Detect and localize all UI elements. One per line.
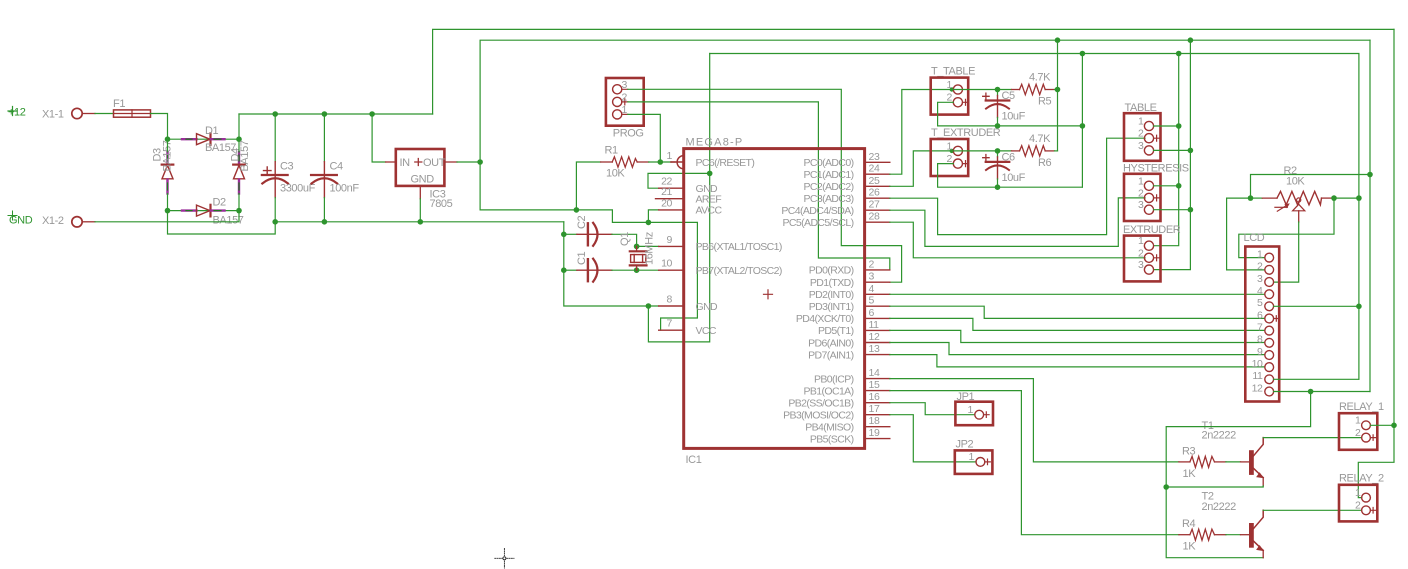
node +12 at C3: [272, 111, 278, 117]
svg-text:1K: 1K: [1183, 468, 1197, 480]
wire RELAY_1 pin1 to +12 vertical: [1370, 424, 1394, 426]
svg-text:1: 1: [1257, 248, 1263, 260]
svg-text:25: 25: [869, 175, 880, 187]
node T_EXTRUDER pin1: [950, 149, 954, 153]
svg-text:2: 2: [1257, 261, 1263, 273]
wire crystal bottom to pin10: [637, 269, 659, 271]
svg-text:10K: 10K: [606, 168, 625, 180]
svg-text:PB7(XTAL2/TOSC2): PB7(XTAL2/TOSC2): [696, 265, 782, 277]
node VCC at AVCC tee: [646, 220, 652, 226]
svg-text:17: 17: [869, 403, 880, 415]
wire C2 to crystal top: [612, 234, 637, 246]
svg-text:PB4(MISO): PB4(MISO): [805, 422, 853, 434]
node GND at IC3: [418, 219, 424, 225]
svg-text:1: 1: [1138, 116, 1144, 128]
svg-text:BA157: BA157: [239, 140, 251, 171]
node GND vertical at R2: [1356, 195, 1362, 201]
node pin1 / PROG1: [658, 159, 664, 165]
svg-text:C5: C5: [1002, 90, 1016, 102]
svg-text:7805: 7805: [430, 198, 453, 210]
svg-text:OUT: OUT: [423, 157, 446, 169]
svg-text:8: 8: [1257, 334, 1263, 346]
wire bridge right to +12 rail: [238, 114, 240, 139]
svg-text:PD7(AIN1): PD7(AIN1): [808, 349, 853, 361]
node +12 at IC3 drop: [369, 111, 375, 117]
svg-text:PD1(TXD): PD1(TXD): [810, 277, 854, 289]
net label GND (input): [8, 211, 33, 227]
node R2 right: [1331, 195, 1337, 201]
svg-text:AVCC: AVCC: [696, 205, 723, 217]
wire TABLE pin3 to VCC riser2: [1154, 149, 1191, 151]
svg-text:LCD: LCD: [1244, 232, 1265, 244]
wire bridge bottom row: [168, 210, 240, 212]
IC1 left pin stubs: [656, 162, 684, 330]
wire R2 left up to VCC vertical: [1251, 175, 1371, 199]
svg-text:16: 16: [869, 391, 880, 403]
svg-text:10K: 10K: [1286, 176, 1305, 188]
capacitor C1: [564, 251, 612, 281]
svg-text:9: 9: [1257, 346, 1263, 358]
node wire2 at VCC riser: [1055, 37, 1061, 43]
wire R5 right to VCC riser: [1055, 89, 1058, 91]
wire PB0 pin14 to R3: [890, 379, 1179, 462]
wire X1-1 to F1: [95, 113, 113, 115]
svg-text:RELAY_1: RELAY_1: [1339, 401, 1384, 413]
node VCC at R1 riser: [574, 207, 580, 213]
wire IC3 OUT to VCC node: [457, 161, 480, 163]
wire T_EXTRUDER pin2 to C6 bottom: [938, 164, 998, 188]
node R2 left: [1248, 195, 1254, 201]
svg-text:1: 1: [1138, 175, 1144, 187]
svg-text:IN: IN: [400, 157, 411, 169]
capacitor C4 100nF: [311, 114, 359, 222]
svg-text:13: 13: [869, 343, 880, 355]
svg-text:12: 12: [1252, 382, 1263, 394]
node GND at pin22 tee: [707, 171, 713, 177]
svg-text:3: 3: [1138, 259, 1144, 271]
svg-text:4: 4: [1257, 285, 1263, 297]
svg-text:R3: R3: [1182, 446, 1196, 458]
wire GND rail: [275, 221, 564, 223]
svg-text:PD4(XCK/T0): PD4(XCK/T0): [796, 313, 854, 325]
svg-text:24: 24: [869, 163, 880, 175]
wire PC1 pin24 to T_TABLE pin1: [890, 90, 953, 175]
wire T1 emitter down-left: [1166, 486, 1263, 487]
wire PB1 pin15 to R4: [890, 391, 1179, 535]
node GND riser at C5 line: [1080, 123, 1086, 129]
IC1 right pin names: [781, 157, 853, 445]
origin crosshair: [495, 549, 514, 569]
pin1 reset bubble: [671, 156, 684, 169]
node T_TABLE pin1: [950, 87, 954, 91]
svg-text:1: 1: [947, 140, 953, 152]
wire PD3 pin5 to LCD pin6: [890, 306, 1265, 318]
svg-text:2: 2: [1355, 500, 1361, 512]
potentiometer R2 10K: [1251, 165, 1333, 222]
svg-text:2: 2: [1355, 427, 1361, 439]
wire LCD pin5 to GND vertical: [1274, 305, 1358, 307]
svg-text:19: 19: [869, 427, 880, 439]
connector RELAY_1: [1339, 401, 1384, 450]
svg-text:PD5(T1): PD5(T1): [818, 325, 854, 337]
voltage regulator IC3 7805: [386, 149, 457, 210]
svg-text:11: 11: [1252, 370, 1263, 382]
node C5 bottom: [995, 123, 1001, 129]
svg-text:R6: R6: [1038, 157, 1052, 169]
svg-text:15: 15: [869, 379, 880, 391]
svg-text:100nF: 100nF: [330, 183, 360, 195]
svg-text:C3: C3: [280, 161, 294, 173]
svg-text:2: 2: [1138, 187, 1144, 199]
svg-text:1: 1: [667, 150, 673, 162]
svg-text:C1: C1: [576, 251, 588, 265]
svg-text:12: 12: [869, 331, 880, 343]
svg-text:3: 3: [1138, 199, 1144, 211]
node bridge top-right: [236, 136, 242, 142]
svg-text:21: 21: [661, 186, 672, 198]
connector RELAY_2: [1339, 473, 1384, 522]
svg-text:8: 8: [667, 294, 673, 306]
svg-text:16MHz: 16MHz: [644, 232, 656, 265]
wire R2 wiper to LCD pin3: [1274, 222, 1299, 282]
node LCD pin12 emitter branch: [1308, 389, 1314, 395]
node HYSTERESIS pin3: [1188, 207, 1194, 213]
svg-text:4: 4: [869, 283, 875, 295]
wire +12 riser to top rail (wire1): [433, 29, 1394, 114]
svg-text:IC1: IC1: [686, 454, 702, 466]
svg-text:6: 6: [869, 307, 875, 319]
connector T_TABLE: [931, 66, 975, 115]
wire PD6 pin12 to LCD pin9: [890, 343, 1265, 355]
node C6 top: [995, 148, 1001, 154]
wire bridge top row: [168, 138, 240, 140]
svg-text:3: 3: [1138, 140, 1144, 152]
connector LCD: [1244, 232, 1280, 402]
diode D2 BA157: [182, 197, 244, 227]
svg-text:5: 5: [1257, 297, 1263, 309]
svg-text:2: 2: [869, 258, 875, 270]
wire VCC riser wire2 to R6: [1057, 40, 1059, 151]
svg-text:JP2: JP2: [956, 439, 974, 451]
svg-text:7: 7: [1257, 321, 1263, 333]
svg-text:+12: +12: [8, 107, 26, 119]
node crystal bottom / pin10: [634, 267, 640, 273]
resistor R1 10K: [576, 145, 648, 210]
svg-text:5: 5: [869, 295, 875, 307]
capacitor C6 10uF: [983, 151, 1026, 187]
IC1 right pin numbers: [869, 151, 880, 439]
wire X1-2 to bridge bottom-right: [95, 211, 239, 222]
node wire2 at VCC riser2: [1188, 37, 1194, 43]
svg-text:PC2(ADC2): PC2(ADC2): [803, 181, 853, 193]
connector EXTRUDER: [1123, 224, 1181, 281]
svg-text:1: 1: [969, 451, 975, 463]
resistor R5 4.7K: [953, 72, 1055, 108]
svg-text:26: 26: [869, 187, 880, 199]
svg-text:18: 18: [869, 415, 880, 427]
wire PD2 pin4 to LCD pin4: [890, 293, 1265, 295]
connector PROG: [606, 78, 644, 140]
svg-text:2n2222: 2n2222: [1202, 501, 1237, 513]
node TABLE pin1: [1176, 123, 1182, 129]
wire PD4 pin6 to LCD pin7: [890, 318, 1265, 330]
node emitter rail: [1163, 484, 1169, 490]
diode D4 BA157: [230, 140, 252, 193]
svg-text:VCC: VCC: [696, 325, 717, 337]
svg-text:28: 28: [869, 211, 880, 223]
wire PD5 pin11 to LCD pin8: [890, 330, 1265, 342]
svg-text:PC0(ADC0): PC0(ADC0): [803, 157, 853, 169]
svg-text:GND: GND: [411, 173, 435, 185]
svg-text:20: 20: [661, 197, 672, 209]
node wire3 at GND riser: [1080, 51, 1086, 57]
svg-text:F1: F1: [113, 98, 125, 110]
resistor R6 4.7K: [953, 133, 1055, 169]
svg-text:10: 10: [1252, 358, 1263, 370]
svg-text:1: 1: [1355, 415, 1361, 427]
svg-text:C6: C6: [1002, 151, 1016, 163]
node LCD pin5 GND: [1356, 304, 1362, 310]
svg-text:1K: 1K: [1183, 541, 1197, 553]
svg-text:23: 23: [869, 151, 880, 163]
svg-text:2: 2: [1138, 128, 1144, 140]
node C5 top: [995, 87, 1001, 93]
svg-text:2: 2: [622, 92, 628, 104]
svg-text:14: 14: [869, 367, 880, 379]
svg-text:X1-2: X1-2: [42, 215, 64, 227]
svg-text:X1-1: X1-1: [42, 109, 64, 121]
svg-text:1: 1: [622, 104, 628, 116]
capacitor C2: [564, 215, 612, 245]
wire VCC riser to wire2: [480, 40, 1370, 162]
wire T1 collector to RELAY_1 pin2: [1263, 437, 1361, 439]
wire R2 right to GND vertical: [1333, 197, 1359, 199]
wire T2 collector to RELAY_2 pin2: [1263, 509, 1361, 511]
wire PC2 pin25 to T_EXTRUDER pin1: [890, 151, 953, 186]
svg-text:PD0(RXD): PD0(RXD): [809, 265, 854, 277]
crystal Q1 16MHz: [619, 232, 656, 270]
wire VCC riser2 (wire2 to EXTRUDER pin3): [1154, 40, 1191, 269]
svg-text:PC6(/RESET): PC6(/RESET): [696, 157, 755, 169]
svg-text:2: 2: [1138, 247, 1144, 259]
wire R3 to T1 base: [1226, 461, 1241, 463]
node bridge top-left: [165, 136, 171, 142]
node crystal top / pin9: [634, 244, 640, 250]
capacitor C5 10uF: [983, 90, 1026, 126]
wire PROG pin2 to PD0: [628, 102, 890, 270]
IC1 origin cross: [764, 290, 773, 299]
svg-text:3: 3: [1257, 273, 1263, 285]
wire +12 vertical down to RELAY_2 pin1: [1358, 29, 1394, 497]
svg-text:PC4(ADC4/SDA): PC4(ADC4/SDA): [781, 205, 853, 217]
wire R2 right branch to LCD pin1: [1239, 198, 1334, 258]
svg-text:PB5(SCK): PB5(SCK): [810, 433, 854, 445]
svg-text:PB6(XTAL1/TOSC1): PB6(XTAL1/TOSC1): [696, 241, 782, 253]
wire R4 to T2 base: [1226, 534, 1241, 536]
wire crystal top to pin9: [637, 245, 659, 247]
node GND rail at C3: [272, 219, 278, 225]
wire GND riser2 (wire3 to EXTRUDER pin1): [1154, 54, 1179, 246]
node TABLE pin3: [1188, 148, 1194, 154]
wire emitter rail (LCD pin12 branch down around): [1166, 392, 1310, 558]
wire TABLE pin1 to GND riser2: [1154, 125, 1179, 127]
svg-text:PB3(MOSI/OC2): PB3(MOSI/OC2): [783, 410, 853, 422]
connector pad X1-1: [42, 108, 95, 120]
svg-text:PB1(OC1A): PB1(OC1A): [803, 385, 853, 397]
svg-text:PC3(ADC3): PC3(ADC3): [803, 193, 853, 205]
connector JP2: [955, 439, 993, 474]
node GND at C2: [561, 232, 567, 238]
svg-text:10: 10: [661, 258, 672, 270]
wire GND rail corner down to C2/C1: [564, 222, 659, 306]
wire C1 to crystal bottom: [612, 269, 637, 271]
node VCC at IC3 OUT: [477, 159, 483, 165]
svg-text:PD3(INT1): PD3(INT1): [809, 301, 854, 313]
wire AVCC branch up to pin20: [648, 210, 658, 223]
node GND at pin8 tee: [646, 303, 652, 309]
svg-text:1: 1: [1138, 235, 1144, 247]
wire bridge left column: [167, 139, 169, 210]
diode D3 BA157: [152, 140, 174, 193]
wire T_TABLE pin2 to C5 bottom: [938, 102, 998, 126]
svg-text:6: 6: [1257, 309, 1263, 321]
wire R1 to pin1 node: [649, 161, 671, 163]
svg-text:C4: C4: [330, 161, 344, 173]
wire PD7 pin13 to LCD pin10: [890, 355, 1265, 367]
svg-text:PD6(AIN0): PD6(AIN0): [808, 337, 853, 349]
svg-text:PD2(INT0): PD2(INT0): [809, 289, 854, 301]
node C6 bottom: [995, 184, 1001, 190]
svg-text:C2: C2: [576, 215, 588, 229]
node R2 top at VCC vertical: [1367, 172, 1373, 178]
svg-text:D2: D2: [213, 197, 227, 209]
node HYSTERESIS pin1: [1176, 183, 1182, 189]
node R5 right: [1055, 87, 1061, 93]
wire GND riser (wire3 to C6 line): [1081, 54, 1083, 188]
connector JP1: [955, 391, 993, 425]
wire GND tee down and to wire3 riser: [648, 54, 709, 342]
connector TABLE: [1124, 102, 1161, 161]
svg-text:R4: R4: [1182, 518, 1196, 530]
svg-text:PB2(SS/OC1B): PB2(SS/OC1B): [788, 398, 853, 410]
wire LCD pin12 to VCC vertical end: [1274, 391, 1370, 393]
wire VCC branch down to AVCC rail: [480, 162, 697, 330]
wire PROG pin3 to PD1: [628, 89, 902, 282]
transistor T2 2n2222: [1202, 491, 1264, 558]
svg-text:10uF: 10uF: [1002, 111, 1026, 123]
svg-text:1: 1: [968, 404, 974, 416]
node GND at C1: [561, 267, 567, 273]
transistor T1 2n2222: [1202, 420, 1264, 486]
wire F1 to bridge top-left: [151, 114, 168, 140]
node bridge bottom-left: [165, 208, 171, 214]
svg-text:T_EXTRUDER: T_EXTRUDER: [931, 127, 1001, 139]
svg-text:3300uF: 3300uF: [280, 183, 316, 195]
svg-text:7: 7: [667, 318, 673, 330]
svg-text:GND: GND: [696, 301, 719, 313]
node bridge bottom-right: [236, 208, 242, 214]
wire bridge right column: [238, 139, 240, 210]
svg-text:MEGA8-P: MEGA8-P: [686, 137, 744, 149]
wire IC3 GND to rail: [419, 199, 421, 222]
wire C6 bottom to GND riser: [998, 186, 1083, 188]
svg-text:3: 3: [622, 79, 628, 91]
wire PC5 pin28 to EXTRUDER pin2: [890, 222, 1145, 258]
wire bridge bottom-left detour to GND rail: [168, 211, 276, 234]
svg-text:PB0(ICP): PB0(ICP): [814, 373, 854, 385]
svg-text:1: 1: [1355, 487, 1361, 499]
svg-text:4.7K: 4.7K: [1029, 133, 1051, 145]
wire PC3 pin26 to TABLE pin2: [890, 138, 1145, 234]
resistor R3 1K: [1179, 446, 1226, 481]
svg-text:PROG: PROG: [613, 128, 644, 140]
wire PB2 pin16 to JP1: [890, 403, 975, 415]
wire GND tee to pin22: [648, 173, 710, 188]
svg-text:10uF: 10uF: [1002, 172, 1026, 184]
resistor R4 1K: [1179, 518, 1226, 553]
wire HYSTERESIS pin1 to GND riser2: [1154, 185, 1179, 187]
wire R2 left to LCD pin2: [1227, 198, 1265, 270]
svg-text:PC5(ADC5/SCL): PC5(ADC5/SCL): [783, 217, 854, 229]
svg-text:R5: R5: [1038, 96, 1052, 108]
wire PC4 pin27 to HYSTERESIS pin2: [890, 198, 1145, 247]
svg-text:4.7K: 4.7K: [1029, 72, 1051, 84]
microcontroller IC1 MEGA8-P body: [684, 137, 865, 467]
svg-text:R1: R1: [605, 145, 619, 157]
svg-text:PC1(ADC1): PC1(ADC1): [803, 169, 853, 181]
wire +12 rail: [239, 113, 433, 115]
svg-text:RELAY_2: RELAY_2: [1339, 473, 1384, 485]
diode D1 BA157: [182, 125, 236, 154]
svg-text:1: 1: [947, 79, 953, 91]
svg-text:3: 3: [869, 271, 875, 283]
wire HYSTERESIS pin3 to VCC riser2: [1154, 209, 1191, 211]
svg-text:9: 9: [667, 234, 673, 246]
wire3 GND top rail: [710, 54, 1359, 380]
svg-text:2n2222: 2n2222: [1202, 430, 1237, 442]
wire VCC vertical (wire2 down to LCD pin12): [1369, 40, 1371, 391]
wire PB3 pin17 to JP2: [890, 415, 976, 462]
node GND at C4: [322, 219, 328, 225]
IC1 right pin stubs: [865, 162, 890, 438]
node +12 at RELAY_1 pin1: [1391, 423, 1397, 429]
IC1 left pin numbers: [661, 150, 672, 330]
svg-text:11: 11: [869, 319, 880, 331]
wire PROG pin1 to IC pin1: [628, 114, 661, 162]
connector T_EXTRUDER: [931, 127, 1001, 176]
svg-text:27: 27: [869, 199, 880, 211]
IC1 left pin names: [696, 157, 782, 337]
net label +12: [8, 107, 26, 119]
wire R6 right to VCC riser: [1055, 150, 1058, 152]
wire +12 drop to IC3 IN: [372, 114, 386, 162]
svg-text:T_TABLE: T_TABLE: [931, 66, 975, 78]
svg-text:Q1: Q1: [619, 232, 631, 246]
fuse F1: [113, 98, 151, 117]
capacitor C3 3300uF: [262, 114, 316, 222]
node +12 at C4: [322, 111, 328, 117]
svg-text:D1: D1: [205, 125, 219, 137]
wire LCD pin11 to GND vertical end: [1274, 378, 1359, 380]
connector pad X1-2: [42, 215, 95, 227]
connector HYSTERESIS: [1123, 162, 1189, 221]
node wire3 at GND riser2: [1176, 51, 1182, 57]
svg-text:AREF: AREF: [696, 194, 722, 206]
wire C5 bottom to GND riser: [998, 125, 1083, 127]
